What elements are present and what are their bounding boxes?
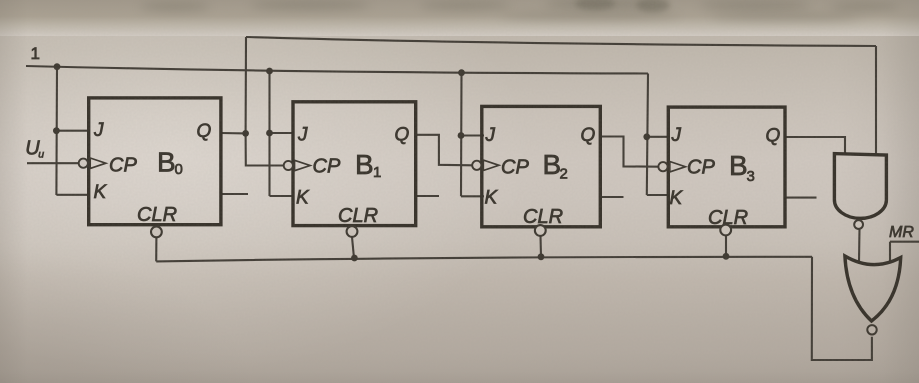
node: Q0 junction [242,130,249,137]
wire: Q0 to B1 CP [246,133,284,165]
NOR gate U2 output bubble [867,325,876,334]
wire: Q0 riser to top feedback [245,37,247,133]
node: B2 J junction [458,132,465,139]
wire: B0 J/K tie drop [55,67,58,195]
wire: NAND output to NOR input [858,229,861,262]
node: B3 J junction [643,133,650,140]
wire: B3 J input [647,136,670,138]
flip-flop B0 CP inversion bubble [79,159,88,168]
flip-flop B3 clock edge wedge [670,162,686,172]
node: B0 J junction [53,127,60,134]
wire: B2 K input [461,195,484,197]
node: logic-1 to B0 tie [54,63,61,70]
wire: CLR bus [156,257,812,262]
wire: logic-1 rail [26,66,648,74]
wire: B0 CLR drop [155,238,157,262]
flip-flop B0 clock edge wedge [90,158,106,168]
flip-flop B2 body [482,106,601,226]
wire: CLR bus return riser [812,257,872,360]
NAND gate U1 body [834,154,886,219]
wire: Q1 output to B2 CP [416,135,472,166]
NAND gate U1 [834,154,886,229]
wire: top feedback to NAND [246,37,876,46]
wire: B0 Qbar stub [222,193,248,195]
node: CLR bus B1 junction [351,255,358,262]
flip-flop B1 CP inversion bubble [284,161,293,170]
NOR gate U2 body [845,256,901,321]
wire: Q2 output to B3 CP [601,137,659,167]
wire: MR input [890,241,919,243]
wire: B2 Qbar stub [601,196,624,198]
flip-flop B1 body [293,102,416,226]
flip-flop B0 [79,98,221,237]
wire: B1 Qbar stub [416,195,439,197]
wire: B2 J/K tie drop [460,73,463,197]
wire: B1 J input [270,132,295,134]
flip-flop B2 clock edge wedge [483,160,499,170]
flip-flop B2 [472,106,600,236]
flip-flop B3 CP inversion bubble [658,162,667,171]
label: Uu input [25,138,44,161]
flip-flop B3 body [668,107,785,227]
wire: B1 K input [270,195,295,197]
node: B1 J junction [266,130,273,137]
wire: Q0 output [221,132,246,134]
wire: B1 CLR drop [352,237,354,258]
wire: B1 J/K tie drop [268,71,270,196]
wire: B2 J input [461,134,484,136]
flip-flop B1 [284,102,416,237]
wire: Q3 output to NAND [785,137,845,154]
node: logic-1 to B1 tie [266,68,273,75]
flip-flop B0 body [89,98,221,225]
flip-flop B3 [658,107,785,235]
flip-flop B3 CLR inversion bubble [720,225,731,236]
node: logic-1 to B2 tie [458,69,465,76]
NOR gate U2 [845,256,901,334]
wire: NAND input drop right [875,46,877,154]
flip-flop B2 CP inversion bubble [472,161,481,170]
flip-flop B2 CLR inversion bubble [535,225,546,236]
wire: B3 K input [647,194,670,196]
wire: MR drop to NOR [889,242,891,263]
wire: B3 Qbar stub [786,197,817,199]
flip-flop B1 CLR inversion bubble [347,226,358,237]
NAND gate U1 output bubble [854,220,863,229]
flip-flop B0 CLR inversion bubble [151,227,162,238]
flip-flop B1 clock edge wedge [295,160,311,170]
wire: Uu clock input [27,162,79,164]
node: CLR bus B3 junction [723,253,730,260]
wire: B3 J/K tie drop [647,74,648,196]
node: CLR bus B2 junction [538,253,545,260]
wire: B2 CLR drop [539,236,542,257]
wire: B3 CLR drop [725,236,727,257]
wire: B0 K input [56,194,90,196]
wire: B0 J input [56,130,90,132]
